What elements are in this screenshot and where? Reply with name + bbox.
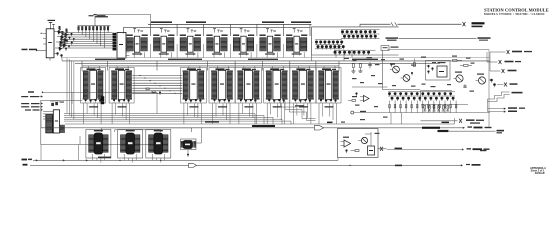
transistor array Q25-Q32 (bottom driver row) — [334, 51, 337, 54]
transistor Q40 in audio box — [361, 137, 367, 143]
output transistors below U12 — [185, 99, 187, 101]
rail 2 open arrow mid — [189, 163, 197, 167]
label small right mid — [496, 129, 498, 131]
wire: U17 outputs to lower bus — [322, 103, 324, 116]
label above U12 — [187, 68, 196, 70]
IC U14 (memory latch 5) with pin termination arrays — [235, 68, 261, 104]
+5V symbol above U6 — [214, 29, 216, 33]
wire: K3 pins to bottom rail — [151, 154, 153, 160]
nested routing outline 2 — [285, 101, 316, 119]
pin caps of U5 — [180, 35, 186, 36]
transistor array Q18-Q24 (lower driver row) — [315, 41, 318, 44]
label TO SEL MAG RAIL B — [186, 21, 206, 23]
IC U32 in detect box — [437, 66, 447, 77]
IC U2 right pin stubs — [126, 34, 130, 36]
wire: comb stubs to bus A — [390, 113, 392, 124]
resistor R34 horizontal — [453, 60, 458, 62]
fuse F1 break symbol — [391, 22, 397, 26]
wire: middle horizontal data bus — [62, 60, 490, 62]
svg-text:22209-2F: 22209-2F — [535, 172, 546, 175]
label TP1 SOL DRIVE in driver box — [386, 37, 399, 38]
junction dots on bundle — [139, 75, 140, 76]
label above U10 — [87, 68, 96, 70]
decoupling capacitors C1 C2 above connector — [52, 103, 54, 106]
input signal wire REMOTE 4 with label — [43, 118, 53, 120]
op-amp U30 triangle — [344, 140, 351, 147]
wire: bus A end riser — [454, 118, 456, 124]
wire: memory row cap rail — [82, 65, 339, 67]
relay driver K1 (motor control 1) with pin arrays — [86, 130, 111, 159]
wire: riser x78 to rail 1 — [78, 145, 80, 161]
resistor R30 with ground — [353, 64, 355, 68]
wire: U6 output stubs and labels below — [213, 52, 215, 57]
resistor network RN1 supply bus — [78, 25, 111, 27]
label above K3 — [154, 130, 163, 131]
transistor Q5 cluster below U1 — [56, 52, 58, 54]
sub-circuit box: solenoid driver array — [312, 27, 399, 55]
transistor Q43 — [456, 75, 463, 82]
wire: bus taps into U17 — [323, 66, 325, 70]
+5V symbol above U4 — [160, 29, 162, 33]
label above U17 — [322, 68, 331, 70]
small resistor pair R20 R21 in bundle gap — [146, 88, 149, 90]
output transistors below U10 — [85, 99, 87, 101]
label 24V SOL at rail end — [472, 22, 485, 24]
wire: inter-stage link U7-U8 — [256, 44, 258, 58]
IC U18 (input buffer) body — [53, 110, 59, 133]
wire: U15 outputs to lower bus — [270, 103, 272, 114]
input signal wire REMOTE 2 with label — [43, 113, 53, 115]
components left of U33 — [352, 100, 356, 102]
label TO SEL MAG RAIL A — [151, 21, 172, 23]
wire: bottom rail 2 (DATA OUT) — [30, 164, 462, 166]
resistor network RN1 (9 pull-up resistors) — [78, 27, 80, 30]
wire: bus taps into U12 — [188, 66, 190, 70]
wire: memory row cap risers — [81, 61, 83, 71]
IC U1 left input pin wire with label AC IN — [38, 49, 46, 51]
output transistors below U17 — [320, 99, 322, 101]
wire: select magnet return cap rail — [124, 26, 311, 28]
wire: -24V aux rail with arrow label — [488, 111, 505, 113]
resistor row R40-R44 with grounds — [424, 106, 426, 110]
wire: risers at x487 right block — [487, 99, 489, 112]
wire: U9 output stubs and labels below — [293, 52, 295, 57]
label above K1 — [94, 130, 103, 131]
label below U16 — [299, 106, 308, 107]
IC U12 (memory latch 3) with pin termination arrays — [181, 68, 207, 104]
wire: +24V rail to fuse F1 — [360, 23, 391, 25]
label on data bus centre — [168, 59, 202, 60]
wire: bottom rail 1 (ATB) — [33, 159, 338, 161]
transistor Q3 cluster — [56, 40, 63, 44]
wire: lower bus A — [65, 123, 455, 125]
label above U14 — [242, 68, 251, 70]
transistor array Q10-Q17 (upper driver row) — [341, 30, 344, 33]
wire: U3 output stubs and labels below — [133, 52, 135, 57]
label below U13 — [218, 106, 227, 107]
sub-circuit border around CN1/U18 — [41, 101, 165, 145]
wire: left riser to rail 1 — [40, 145, 42, 161]
wire bundle: vertical lines from U1 outputs down to CN1 bus — [66, 58, 68, 114]
resistor R35 horizontal — [464, 65, 469, 67]
transistor array Q50-Q61 (lamp drivers, two rows) — [388, 92, 391, 95]
wire: bus taps into U16 — [297, 66, 299, 70]
wire: signal line with inline label to TP11 — [438, 130, 449, 132]
IC U8 (selection driver 6) with pin resistor arrays — [260, 37, 267, 51]
wire: U16 outputs to lower bus — [296, 103, 298, 115]
IC U1 left pin stubs — [43, 33, 46, 35]
label below U15 — [273, 106, 282, 107]
wire: U10 outputs to lower bus — [86, 103, 88, 113]
label at J8 — [395, 148, 403, 150]
wire bundle: stair-step drops joining lower bus — [254, 114, 256, 125]
small transistor Q45 bottom — [490, 79, 493, 82]
IC U3 (selection driver 1) with pin resistor arrays — [127, 37, 134, 51]
capacitor C20 — [369, 62, 371, 65]
wire: bus taps into U11 — [116, 66, 118, 70]
label below U17 — [325, 106, 334, 107]
rail 2 end arrow and label — [461, 164, 463, 166]
wire: U7 output stubs and labels below — [240, 52, 242, 57]
label -24 VF at return rail end — [478, 37, 491, 39]
wire: middle horizontal data bus upper — [62, 57, 490, 59]
IC U31 in audio box — [368, 146, 375, 155]
diodes D10 D11 in detect box — [427, 65, 429, 67]
wire: rail to TP7 connector — [490, 51, 506, 53]
wire: inter-stage link U3-U4 — [150, 44, 152, 58]
IC U18 right pin hatch — [60, 125, 65, 133]
pin caps of U4 — [153, 35, 159, 36]
pin caps of U6 — [206, 35, 212, 36]
op-amp U33 triangle small — [364, 96, 370, 102]
input signal wire REMOTE 1 with label — [43, 110, 53, 112]
label ATB at rail 1 left end — [22, 159, 28, 161]
IC U6 (selection driver 4) with pin resistor arrays — [206, 37, 213, 51]
wire: resistor top rail in lamp box — [421, 103, 468, 105]
value labels scattered over right-side components — [344, 58, 349, 59]
wire: lamp rail — [421, 120, 458, 122]
label above U11 — [115, 68, 124, 70]
+5V symbol above U9 — [293, 29, 295, 33]
sub-circuit box: motor phase control — [383, 51, 421, 90]
label above U16 — [296, 68, 305, 70]
nested routing outline 3 — [290, 103, 316, 121]
wire bundle: CN1 outputs routed right under memory latches — [64, 113, 255, 115]
transistor Q4 cluster — [55, 46, 62, 50]
wire: +5V rail across to select bus — [95, 13, 151, 15]
resistor R33 — [414, 63, 416, 67]
IC U9 (selection driver 7) with pin resistor arrays — [286, 37, 293, 51]
rail 2 tick marks — [395, 165, 402, 167]
IC U10 (memory latch 1) with pin termination arrays — [81, 68, 106, 104]
connector J10 on lamp rail — [459, 119, 460, 123]
capacitor C21 below Q43 — [464, 84, 466, 86]
wire: audio output line to right — [387, 149, 462, 151]
label on data bus right — [248, 59, 278, 60]
wire: U4 output stubs and labels below — [160, 52, 162, 57]
IC U1 (input decoder) body — [46, 29, 54, 58]
connector J5 on +24V rail — [463, 22, 464, 26]
IC U11 (memory latch 2) with pin termination arrays — [109, 68, 134, 104]
label near outline — [295, 105, 304, 106]
sub-circuit box: audio detect — [338, 129, 379, 158]
output transistors below U16 — [294, 99, 296, 101]
sub-circuit box: driver panel right — [388, 50, 490, 128]
wire: -24V return rail — [399, 38, 477, 40]
motor capacitor C10 body — [181, 139, 197, 150]
wire: bus taps into U13 — [217, 66, 219, 70]
wire: row C right link — [196, 142, 202, 144]
connector pad column between U10 and U11 — [101, 97, 104, 99]
wire: line from motor sense with node circle — [351, 111, 354, 114]
wire ladder from RN1 to U2 inputs — [61, 32, 113, 34]
wire: right edge risers — [486, 52, 488, 62]
IC U1 (input decoder) +5V supply symbol — [50, 23, 52, 29]
pin caps of U9 — [286, 35, 292, 36]
label below U12 — [189, 106, 198, 107]
svg-text:MODELS TT9400C / TD3700C / CL9: MODELS TT9400C / TD3700C / CL9400C — [484, 12, 545, 16]
IC U16 (memory latch 7) with pin termination arrays — [290, 68, 316, 104]
label above U13 — [216, 68, 225, 70]
label SEARCH DATA on bus B — [422, 127, 440, 129]
pin caps of U7 — [233, 35, 239, 36]
nested routing outline 1 — [281, 99, 297, 108]
wire: U12 outputs to lower bus — [186, 103, 188, 115]
+5V symbol above U7 — [240, 29, 242, 33]
transistor Q2 cluster — [57, 34, 64, 38]
transistor Q41 — [393, 66, 400, 73]
wire: driver box left edge to data bus — [311, 55, 313, 61]
IC U13 (memory latch 4) with pin termination arrays — [209, 68, 235, 104]
label TO SEL MAG RAIL C — [262, 21, 284, 23]
connector CN1 pin field (hatched) — [46, 115, 53, 134]
label TO SEL MAG RAIL D — [291, 21, 311, 23]
transistor Q44 — [478, 77, 485, 84]
resistor R45 in audio box — [355, 150, 359, 152]
wire bundle (8 lines) between U11 and U12 — [132, 75, 182, 77]
+5V symbol above U3 — [134, 29, 136, 33]
wire: cap rail risers at group gaps — [150, 24, 152, 36]
output transistors below U14 — [240, 99, 242, 101]
box around lamp drivers — [421, 91, 453, 102]
wire: link line y87 in motor box — [352, 86, 388, 88]
wire: U5 output stubs and labels below — [186, 52, 188, 57]
wire: rail to TP9 connector — [490, 70, 501, 72]
IC U2 (keyboard scanner) body — [117, 33, 126, 59]
+5V symbol above U5 — [187, 29, 189, 33]
IC U15 (memory latch 6) with pin termination arrays — [264, 68, 290, 104]
relay driver K3 (motor control 3) with pin arrays — [146, 130, 171, 159]
wire: +24V aux rail with arrow label — [488, 108, 505, 110]
wire: row C top interconnect — [102, 128, 192, 132]
label above U2 — [95, 16, 108, 17]
label above U15 — [270, 68, 279, 70]
label TP note above right lines — [480, 150, 487, 151]
output transistors below U11 — [113, 99, 115, 101]
arrow junctions on rail 1 — [36, 159, 38, 161]
wire: rail to TP8 connector — [487, 61, 498, 63]
wire: driver box feed to +24V rail — [359, 24, 361, 27]
wire: bus B vertical at left border — [40, 108, 42, 128]
wire: U11 outputs to lower bus — [115, 103, 117, 114]
+5V symbol above U8 — [267, 29, 269, 33]
IC U4 (selection driver 2) with pin resistor arrays — [153, 37, 160, 51]
wire: lower bus B to REP connector — [41, 127, 464, 129]
output transistors below U13 — [213, 99, 215, 101]
relay driver K2 (motor control 2) with pin arrays — [118, 130, 143, 159]
output transistors below U15 — [268, 99, 270, 101]
bus B end arrow with label REP — [463, 127, 465, 129]
wire: bus taps into U14 — [243, 66, 245, 70]
+5V rail feeding resistor network RN1 — [94, 15, 96, 26]
wire: vertical link rail2 to audio box — [337, 158, 339, 161]
wire: inter-stage link U8-U9 — [282, 44, 284, 58]
sub-circuit box: zero-cross detect — [426, 61, 451, 81]
wire: bus stub to U1 block — [61, 58, 63, 61]
pin caps of U3 — [127, 35, 133, 36]
label on bus A — [252, 125, 275, 127]
wire: inter-stage link U5-U6 — [203, 44, 205, 58]
input signal wire REMOTE 3 with label — [43, 115, 53, 117]
wire: K1 pins to bottom rail — [91, 154, 93, 160]
wire: C10 stub down — [187, 150, 189, 154]
wire: U13 outputs to lower bus — [215, 103, 217, 116]
resistor R31 with ground — [360, 64, 362, 68]
wire: U14 outputs to lower bus — [241, 103, 243, 113]
label on data bus far right — [352, 59, 378, 60]
IC U5 (selection driver 3) with pin resistor arrays — [180, 37, 187, 51]
wire: bus taps into U10 — [88, 66, 90, 70]
IC U7 (selection driver 5) with pin resistor arrays — [233, 37, 240, 51]
transistor Q1 cluster on U1 output — [54, 29, 61, 33]
label below U10 — [89, 106, 98, 107]
wire: middle horizontal data bus lower — [75, 62, 440, 64]
label below U14 — [244, 106, 253, 107]
wire: top horizontal bus TO SELECT MAGNETS — [148, 23, 312, 25]
wire: inter-stage link U4-U5 — [176, 44, 178, 58]
wire: service switch line with label — [28, 91, 34, 92]
pin caps of U8 — [260, 35, 266, 36]
audio line end arrow and label — [462, 148, 464, 150]
stair-step wires upper right corner — [488, 92, 510, 99]
wire: K2 pins to bottom rail — [123, 154, 125, 160]
wire: U8 output stubs and labels below — [266, 52, 268, 57]
label below U11 — [118, 106, 127, 107]
connector pads column at U2 left — [113, 33, 116, 35]
wire: audio box output with connector J8 — [378, 148, 387, 150]
wire: driver bottom row taps to bus — [335, 50, 337, 57]
bus B open arrow — [314, 126, 323, 130]
diode array D1-D4 between U1 and resistor ladder — [64, 44, 66, 46]
IC U17 (memory latch 8) with pin termination arrays — [316, 68, 341, 104]
label on data bus left — [95, 59, 125, 60]
label D at rail 2 left end — [23, 164, 28, 166]
label below K1 — [98, 157, 111, 159]
transistor Q42 — [403, 75, 410, 82]
connector J9 with label lower right — [504, 83, 505, 87]
wire: inter-stage link U6-U7 — [229, 44, 231, 58]
wire: bus taps into U15 — [271, 66, 273, 70]
label above K2 — [126, 130, 135, 131]
resistor ladder comb to sense line — [389, 101, 391, 113]
